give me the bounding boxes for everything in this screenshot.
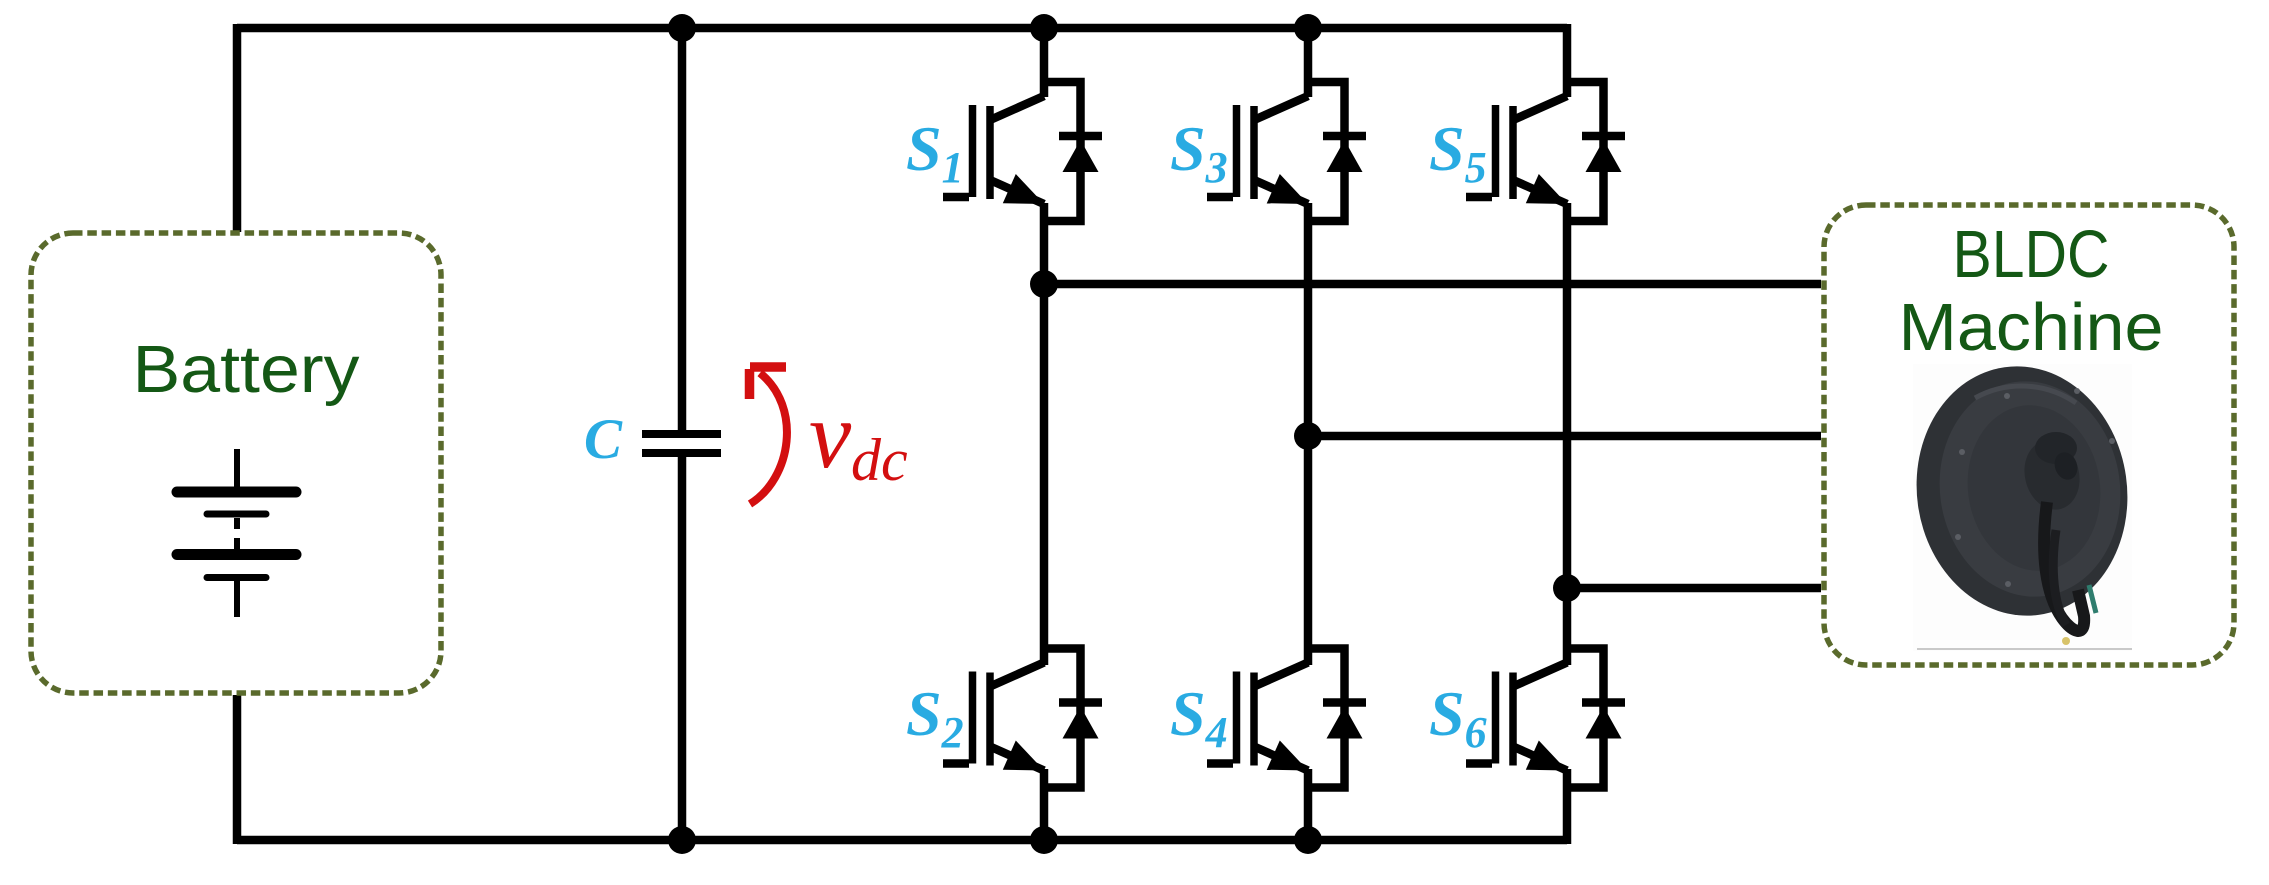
wire: phase C output: [1567, 584, 1821, 593]
IGBT switch S6 with antiparallel diode: [1466, 649, 1625, 788]
node phase A: [1030, 270, 1058, 298]
wire: leg1 collector vertical: [1040, 28, 1049, 97]
wire: top DC rail: [237, 24, 1567, 33]
wire: leg3 middle vertical: [1563, 203, 1572, 665]
wire: bottom DC rail: [237, 836, 1567, 845]
BLDC motor photo background: [1913, 364, 2132, 651]
svg-text:Battery: Battery: [133, 332, 361, 407]
wire: leg1 bottom vertical: [1040, 769, 1049, 840]
svg-text:C: C: [584, 408, 623, 471]
wire: leg3 bottom vertical: [1563, 769, 1572, 844]
battery symbol: [177, 449, 296, 617]
wire: leg1 middle vertical: [1040, 203, 1049, 665]
svg-text:dc: dc: [851, 427, 908, 493]
junction dot top rail leg2: [1294, 14, 1322, 42]
wire: capacitor top lead: [678, 28, 687, 434]
junction dot top rail leg1: [1030, 14, 1058, 42]
junction dot bottom rail leg2: [1294, 826, 1322, 854]
IGBT switch S3 with antiparallel diode: [1207, 82, 1366, 221]
BLDC motor hub drawing: [1901, 353, 2144, 645]
wire: phase B output: [1308, 432, 1821, 441]
IGBT switch S1 with antiparallel diode: [943, 82, 1102, 221]
IGBT switch S2 with antiparallel diode: [943, 649, 1102, 788]
vdc arc arrow: [750, 373, 787, 504]
svg-text:v: v: [809, 382, 852, 488]
Battery dashed box: [31, 233, 441, 693]
node phase C: [1553, 574, 1581, 602]
junction dot top rail capacitor: [668, 14, 696, 42]
junction dot bottom rail capacitor: [668, 826, 696, 854]
wire: leg2 collector vertical: [1304, 28, 1313, 97]
wire: capacitor bottom lead: [678, 453, 687, 840]
svg-text:BLDC: BLDC: [1953, 217, 2110, 292]
wire: leg2 middle vertical: [1304, 203, 1313, 665]
IGBT switch S5 with antiparallel diode: [1466, 82, 1625, 221]
node phase B: [1294, 422, 1322, 450]
vdc arrowhead barbs: [750, 362, 786, 372]
wire: leg3 collector vertical: [1563, 24, 1572, 97]
wire: battery positive lead: [233, 24, 242, 232]
BLDC Machine dashed box: [1824, 205, 2234, 665]
junction dot bottom rail leg1: [1030, 826, 1058, 854]
IGBT switch S4 with antiparallel diode: [1207, 649, 1366, 788]
wire: phase A output: [1044, 280, 1821, 289]
wire: battery negative lead: [233, 695, 242, 844]
wire: leg2 bottom vertical: [1304, 769, 1313, 840]
capacitor C plates: [642, 434, 721, 453]
svg-text:Machine: Machine: [1899, 290, 2164, 365]
